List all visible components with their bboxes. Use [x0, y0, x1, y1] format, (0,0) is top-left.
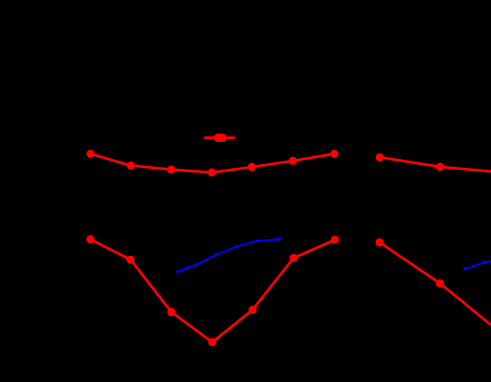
red curve top-right panel (markers) [376, 153, 444, 171]
red curve top-left panel (markers) [86, 150, 338, 177]
red curve top-left panel (line) [91, 154, 335, 173]
blue dashed curve left panel (point markers) [176, 238, 279, 274]
red curve bottom-left panel V-shape (markers) [86, 235, 339, 346]
red curve bottom-left panel V-shape (line) [90, 239, 335, 342]
red curve top-right panel (line) [380, 157, 491, 171]
red curve bottom-right panel descending (line) [380, 242, 491, 325]
blue dashed curve left panel (line) [178, 239, 282, 272]
blue dashed curve right panel (point markers) [463, 261, 486, 271]
blue dashed curve right panel (line) [465, 261, 491, 269]
legend entry: red line with double circle marker [204, 134, 235, 142]
red curve bottom-right panel descending (markers) [376, 238, 445, 287]
